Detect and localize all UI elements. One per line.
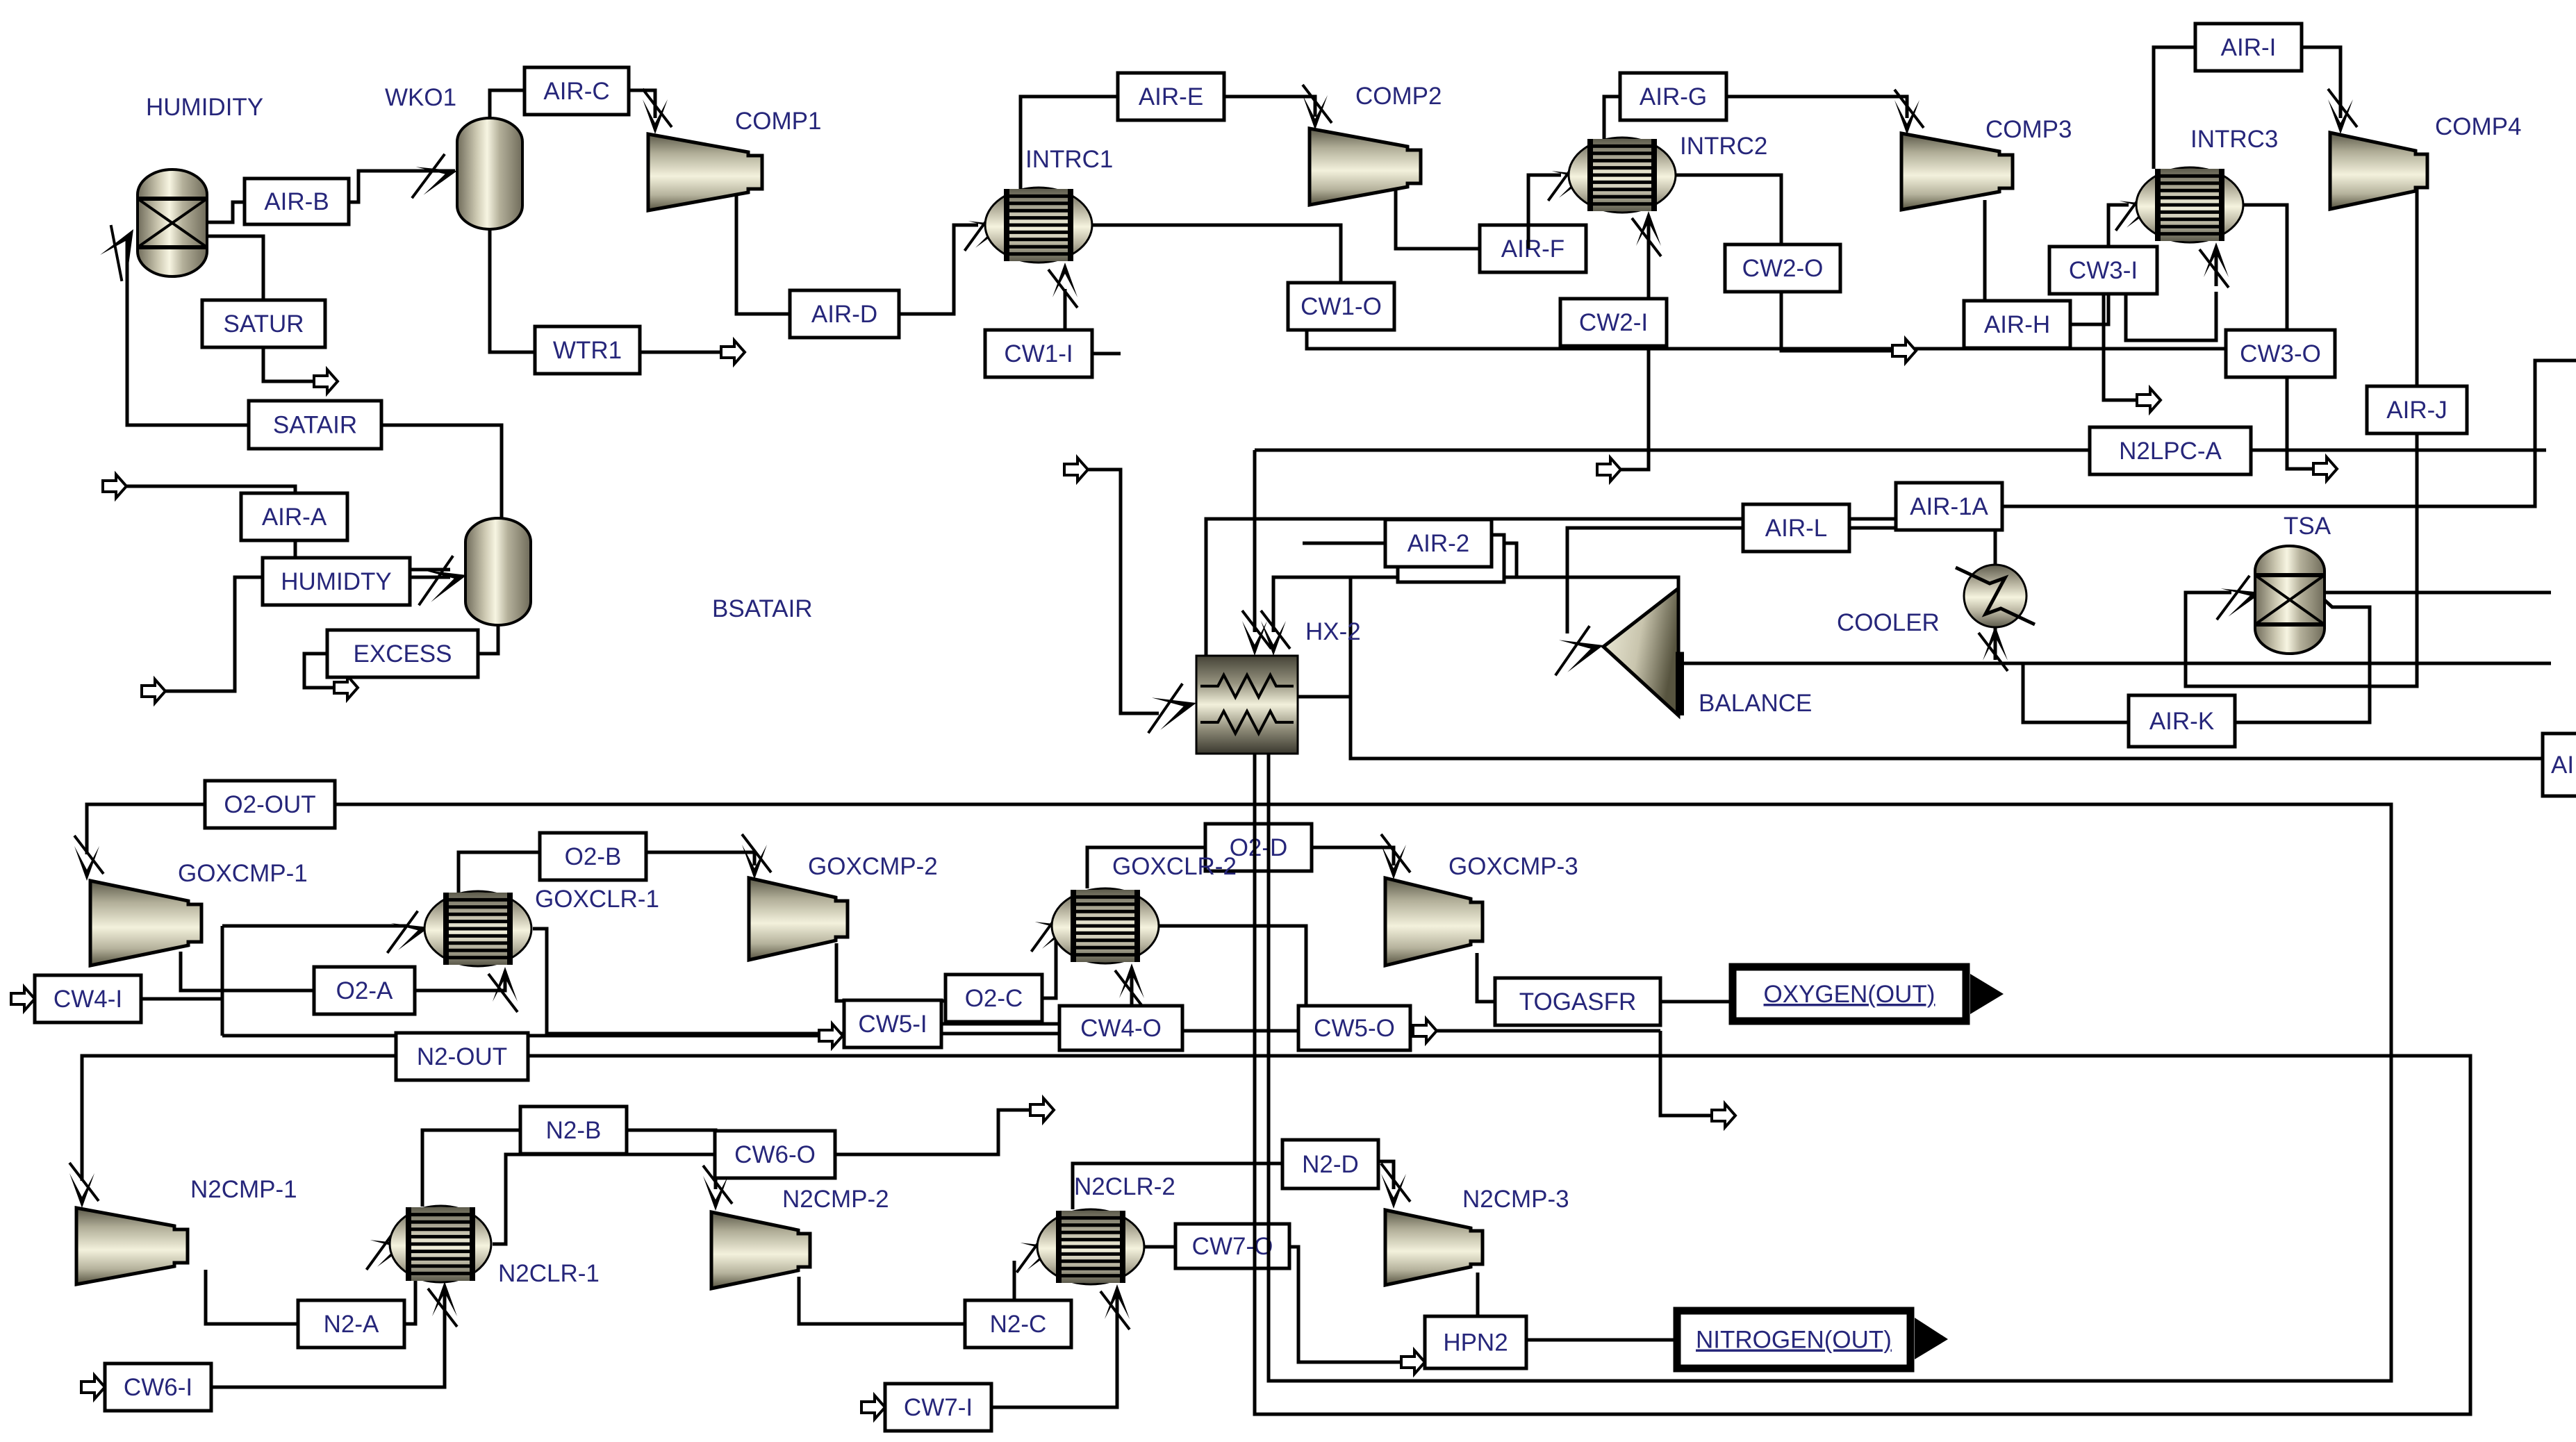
svg-text:GOXCMP-1: GOXCMP-1 (178, 860, 308, 887)
svg-text:HUMIDITY: HUMIDITY (146, 94, 263, 121)
svg-text:COMP2: COMP2 (1355, 83, 1442, 110)
svg-text:O2-D: O2-D (1230, 834, 1288, 861)
svg-text:EXCESS: EXCESS (354, 640, 452, 668)
svg-text:COMP3: COMP3 (1985, 116, 2072, 143)
svg-text:BALANCE: BALANCE (1699, 690, 1812, 717)
svg-text:N2CMP-3: N2CMP-3 (1462, 1186, 1569, 1213)
svg-text:INTRC3: INTRC3 (2190, 126, 2278, 153)
svg-text:AIR-J: AIR-J (2386, 397, 2447, 424)
svg-text:CW7-I: CW7-I (904, 1394, 973, 1421)
svg-text:CW1-I: CW1-I (1004, 340, 1073, 367)
svg-text:N2-OUT: N2-OUT (417, 1043, 507, 1070)
svg-text:CW5-I: CW5-I (858, 1011, 927, 1038)
svg-text:CW3-O: CW3-O (2240, 340, 2321, 367)
svg-text:NITROGEN(OUT): NITROGEN(OUT) (1696, 1327, 1892, 1354)
svg-text:AIR: AIR (2551, 752, 2576, 779)
svg-text:WKO1: WKO1 (385, 84, 456, 111)
svg-text:AIR-H: AIR-H (1984, 311, 2050, 338)
svg-text:N2CMP-1: N2CMP-1 (190, 1176, 297, 1203)
svg-text:CW6-I: CW6-I (124, 1374, 192, 1401)
svg-text:CW1-O: CW1-O (1301, 293, 1382, 320)
svg-text:COMP1: COMP1 (735, 108, 821, 135)
svg-text:COMP4: COMP4 (2435, 113, 2521, 140)
svg-text:GOXCLR-2: GOXCLR-2 (1112, 853, 1237, 880)
svg-text:AIR-K: AIR-K (2149, 708, 2214, 735)
svg-text:HUMIDTY: HUMIDTY (281, 568, 391, 595)
svg-text:CW7-O: CW7-O (1192, 1233, 1273, 1260)
svg-text:N2LPC-A: N2LPC-A (2119, 438, 2222, 465)
svg-text:N2CLR-1: N2CLR-1 (498, 1260, 600, 1287)
svg-text:CW2-O: CW2-O (1742, 255, 1824, 282)
svg-text:N2-A: N2-A (324, 1311, 379, 1338)
svg-text:AIR-F: AIR-F (1501, 235, 1564, 263)
svg-text:CW5-O: CW5-O (1314, 1015, 1395, 1042)
svg-text:TSA: TSA (2284, 513, 2331, 540)
svg-text:O2-OUT: O2-OUT (224, 791, 315, 818)
svg-text:CW3-I: CW3-I (2069, 257, 2138, 284)
svg-text:TOGASFR: TOGASFR (1519, 988, 1637, 1016)
svg-text:AIR-A: AIR-A (262, 504, 327, 531)
svg-text:INTRC1: INTRC1 (1025, 146, 1113, 173)
svg-text:GOXCLR-1: GOXCLR-1 (535, 886, 659, 913)
svg-text:O2-B: O2-B (565, 843, 622, 870)
svg-text:CW4-I: CW4-I (53, 986, 122, 1013)
svg-text:AIR-E: AIR-E (1139, 83, 1203, 110)
svg-text:INTRC2: INTRC2 (1680, 133, 1767, 160)
svg-text:AIR-I: AIR-I (2221, 34, 2277, 61)
svg-text:GOXCMP-2: GOXCMP-2 (808, 853, 938, 880)
svg-text:WTR1: WTR1 (553, 337, 622, 364)
svg-text:HX-2: HX-2 (1305, 618, 1361, 645)
svg-text:O2-A: O2-A (336, 977, 393, 1004)
svg-text:AIR-B: AIR-B (264, 188, 329, 215)
svg-text:SATUR: SATUR (223, 310, 304, 338)
svg-text:AIR-D: AIR-D (811, 301, 877, 328)
svg-text:O2-C: O2-C (965, 985, 1023, 1012)
svg-text:N2-D: N2-D (1302, 1151, 1359, 1178)
svg-text:AIR-G: AIR-G (1640, 83, 1707, 110)
svg-text:N2CLR-2: N2CLR-2 (1074, 1173, 1175, 1200)
svg-text:OXYGEN(OUT): OXYGEN(OUT) (1764, 981, 1935, 1008)
svg-text:HPN2: HPN2 (1443, 1329, 1508, 1357)
svg-text:CW2-I: CW2-I (1579, 309, 1648, 336)
svg-text:CW4-O: CW4-O (1080, 1015, 1162, 1042)
svg-text:COOLER: COOLER (1837, 609, 1940, 636)
svg-text:N2CMP-2: N2CMP-2 (782, 1186, 889, 1213)
svg-text:N2-C: N2-C (990, 1311, 1047, 1338)
svg-text:CW6-O: CW6-O (734, 1141, 816, 1168)
svg-text:GOXCMP-3: GOXCMP-3 (1448, 853, 1578, 880)
svg-text:AIR-2: AIR-2 (1407, 530, 1469, 557)
svg-text:SATAIR: SATAIR (273, 412, 357, 439)
svg-text:N2-B: N2-B (546, 1117, 602, 1144)
svg-text:AIR-C: AIR-C (543, 78, 609, 105)
svg-text:BSATAIR: BSATAIR (712, 595, 813, 622)
svg-text:AIR-L: AIR-L (1765, 515, 1827, 542)
svg-text:AIR-1A: AIR-1A (1910, 493, 1988, 520)
